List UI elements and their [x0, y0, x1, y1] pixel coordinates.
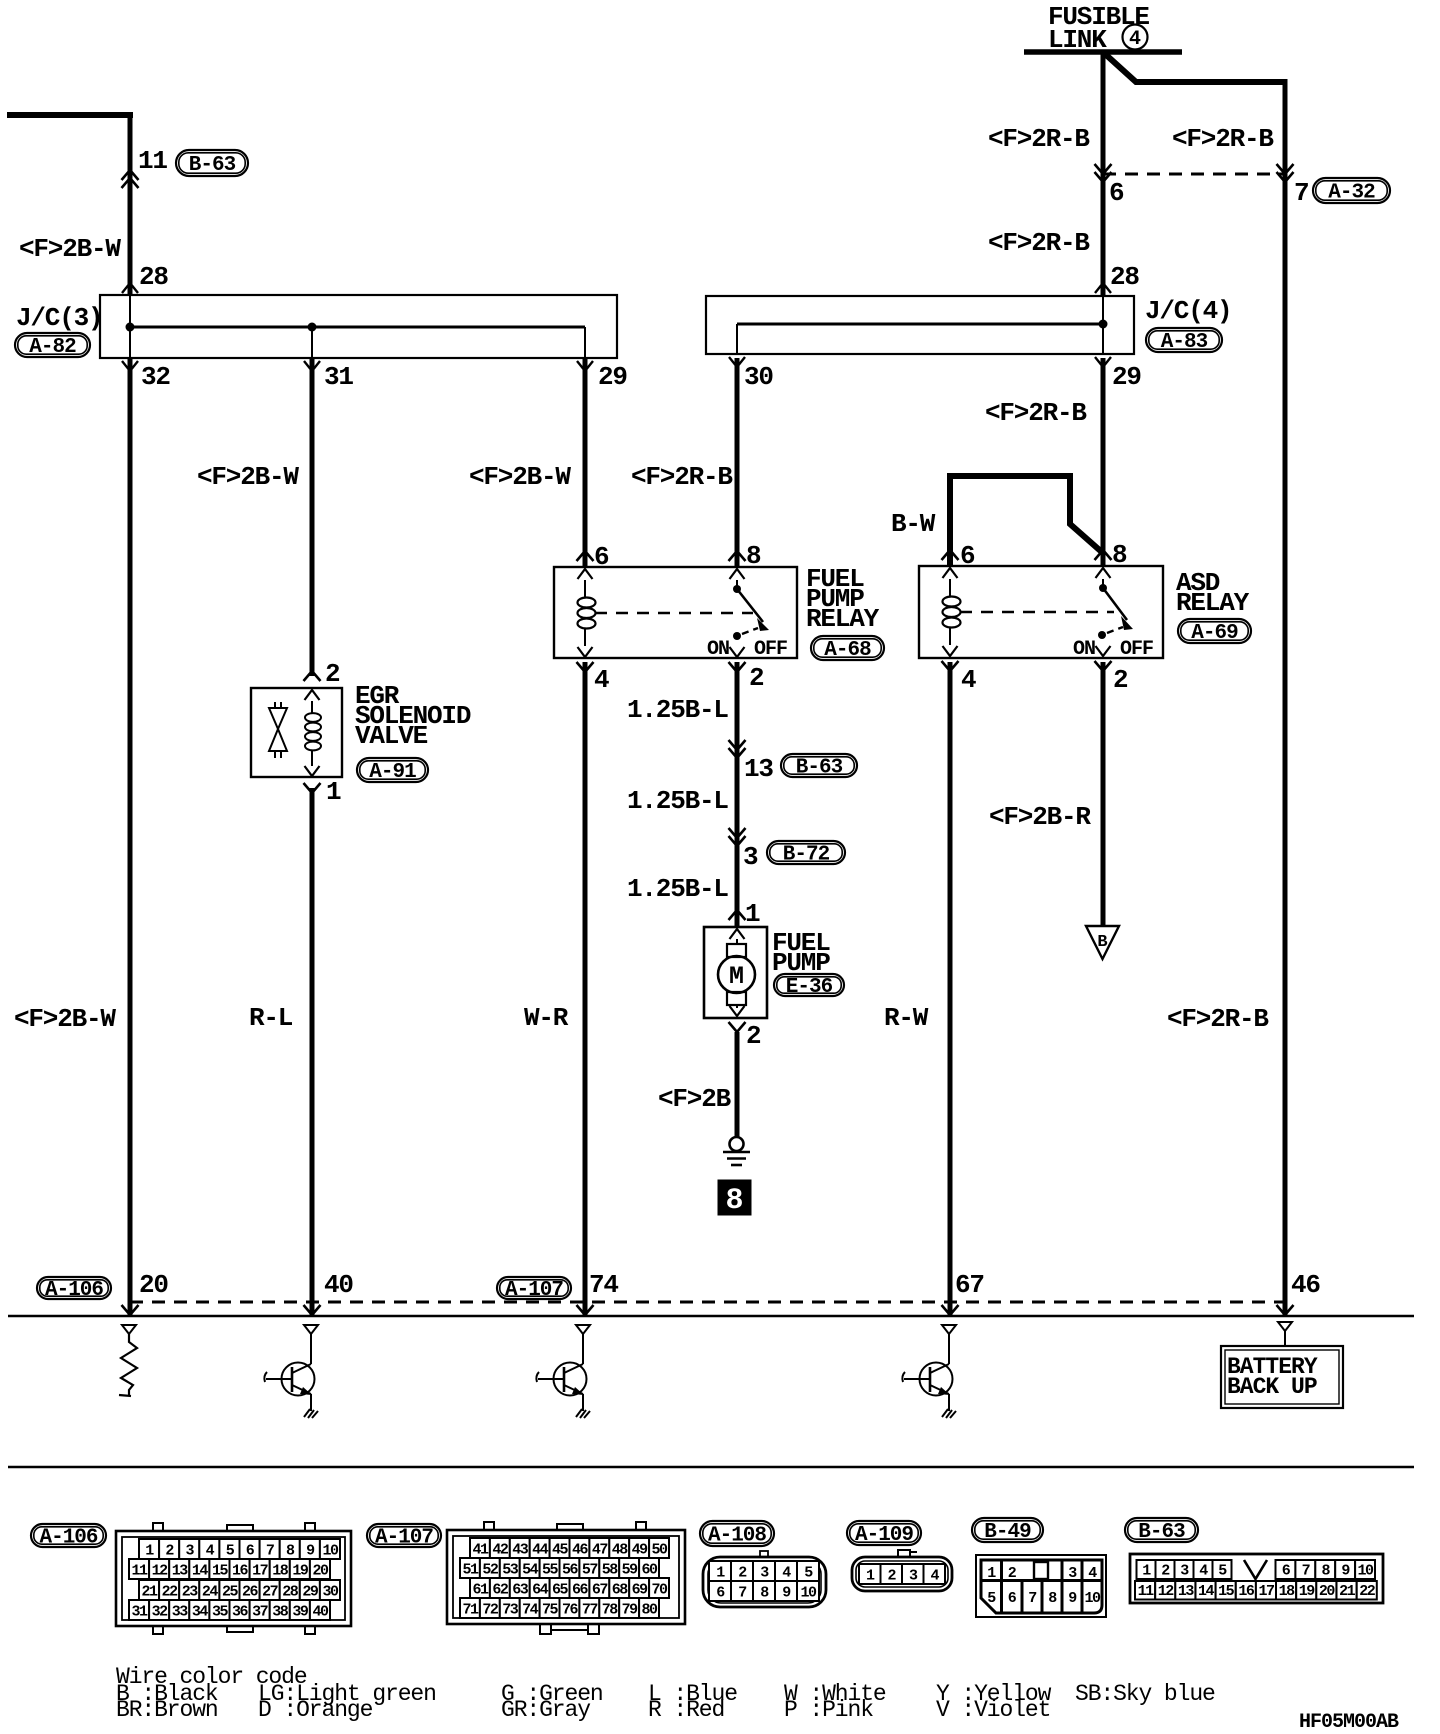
- svg-text:B: B: [1097, 933, 1107, 952]
- inline connector pin 11 (B-63) double chevron: [122, 170, 139, 180]
- circled 4: [1123, 25, 1148, 50]
- ground symbol (fuel pump): [730, 1137, 744, 1151]
- ASD pin 8 chevrons and number: [1095, 550, 1112, 560]
- connector pill B-63 (top): [176, 150, 248, 176]
- inline connector pin 7 double chevron (A-32): [1277, 164, 1294, 174]
- ASD pin 4 chevrons and number: [943, 646, 958, 656]
- svg-text:53: 53: [502, 1562, 519, 1579]
- svg-text:30: 30: [744, 362, 773, 392]
- svg-text:29: 29: [302, 1584, 319, 1601]
- svg-text:<F>2R-B: <F>2R-B: [988, 124, 1090, 154]
- svg-text:E-36: E-36: [786, 976, 833, 999]
- ASD pin 2 chevrons and number: [1096, 646, 1111, 656]
- svg-text:20: 20: [1319, 1583, 1336, 1600]
- chevron into EGR pin 2 and number: [304, 671, 321, 681]
- svg-text:B-63: B-63: [796, 757, 843, 780]
- svg-text:1.25B-L: 1.25B-L: [627, 874, 728, 904]
- svg-text:56: 56: [562, 1562, 579, 1579]
- svg-text:28: 28: [1110, 262, 1139, 292]
- ECU pin 74 chevron and number: [577, 1305, 594, 1315]
- fuel pump motor symbol: [736, 939, 738, 944]
- svg-text:46: 46: [1291, 1270, 1320, 1300]
- svg-text:A-69: A-69: [1191, 622, 1238, 645]
- connector pill E-36: [774, 974, 844, 996]
- svg-text:A-109: A-109: [855, 1524, 913, 1547]
- inline connector pin 3 (B-72) double chevron: [729, 828, 746, 838]
- wire: column 3 from J/C(3)-29 to fuel pump relay pin 6: [583, 358, 588, 567]
- svg-text:43: 43: [512, 1542, 529, 1559]
- inline connector pin 6 double chevron (A-32): [1095, 164, 1112, 174]
- svg-text:7: 7: [1294, 178, 1308, 208]
- svg-text:B-63: B-63: [189, 154, 236, 177]
- connector pill A-106 (ECU): [37, 1277, 111, 1299]
- wire: fusible link down column 6: [1101, 52, 1106, 296]
- connector pill A-107 (pinout): [367, 1524, 441, 1547]
- svg-text:80: 80: [642, 1602, 659, 1619]
- svg-text:<F>2B: <F>2B: [658, 1084, 732, 1114]
- svg-text:60: 60: [642, 1562, 659, 1579]
- svg-text:R-L: R-L: [249, 1003, 293, 1033]
- svg-text:R-W: R-W: [884, 1003, 929, 1033]
- svg-text:VALVE: VALVE: [355, 721, 428, 751]
- svg-text:1: 1: [745, 899, 760, 929]
- wire: fuel pump ground wire: [735, 1032, 740, 1138]
- chevron out of J/C(3) pin 29: [577, 361, 593, 371]
- svg-text:J/C(3): J/C(3): [16, 303, 102, 333]
- svg-text:BR:Brown: BR:Brown: [116, 1697, 218, 1723]
- EGR valve bowtie symbol: [274, 702, 276, 708]
- svg-text:68: 68: [612, 1582, 629, 1599]
- svg-text:74: 74: [522, 1602, 539, 1619]
- svg-text:16: 16: [1238, 1583, 1255, 1600]
- svg-text:A-82: A-82: [29, 336, 76, 359]
- svg-text:8: 8: [746, 541, 761, 571]
- svg-text:17: 17: [1258, 1583, 1274, 1600]
- connector B-63 pinout: [1130, 1554, 1383, 1603]
- svg-text:38: 38: [272, 1604, 289, 1621]
- svg-text:36: 36: [232, 1604, 249, 1621]
- svg-text:35: 35: [212, 1604, 229, 1621]
- chevron into fuel pump pin 1 and number: [729, 910, 746, 920]
- svg-text:51: 51: [462, 1562, 479, 1579]
- svg-text:50: 50: [652, 1542, 669, 1559]
- connector pill A-109: [847, 1521, 921, 1545]
- svg-text:W-R: W-R: [524, 1003, 569, 1033]
- svg-text:7: 7: [1028, 1590, 1036, 1607]
- chevron out of J/C(4) pin 29: [1095, 357, 1111, 367]
- connector pill B-72: [767, 841, 845, 864]
- wire: column 5 from ASD pin 4 to ECU pin 67: [948, 662, 953, 1316]
- svg-text:<F>2R-B: <F>2R-B: [631, 462, 733, 492]
- dashed tie line between A-32 pins: [1103, 173, 1285, 176]
- svg-text:62: 62: [492, 1582, 509, 1599]
- svg-text:26: 26: [242, 1584, 259, 1601]
- svg-text:A-107: A-107: [375, 1527, 433, 1550]
- connector pill A-106 (pinout): [31, 1524, 106, 1547]
- chevron into J/C(4) pin 28: [1095, 283, 1111, 293]
- J/C(3) internal bus line with junction dots: [129, 295, 131, 327]
- svg-text:48: 48: [612, 1542, 629, 1559]
- connector pill A-68: [811, 636, 884, 660]
- svg-text:4: 4: [961, 665, 976, 695]
- svg-text:4: 4: [594, 665, 609, 695]
- svg-text:19: 19: [292, 1563, 309, 1580]
- svg-text:20: 20: [139, 1270, 168, 1300]
- svg-text:D :Orange: D :Orange: [258, 1697, 373, 1723]
- svg-text:22: 22: [162, 1584, 179, 1601]
- inline connector pin 13 (B-63) double chevron: [729, 740, 746, 750]
- svg-text:37: 37: [252, 1604, 268, 1621]
- ECU pin 67 chevron and number: [942, 1305, 959, 1315]
- svg-text:13: 13: [172, 1563, 189, 1580]
- fuel pump E-36 box: [704, 927, 767, 1018]
- svg-text:A-91: A-91: [369, 761, 416, 784]
- relay pin 4 chevrons and number: [578, 647, 593, 657]
- svg-text:7: 7: [738, 1585, 746, 1602]
- svg-text:A-106: A-106: [45, 1279, 103, 1302]
- svg-text:M: M: [729, 962, 744, 991]
- svg-text:<F>2B-W: <F>2B-W: [19, 234, 121, 264]
- svg-text:67: 67: [592, 1582, 608, 1599]
- svg-text:32: 32: [152, 1604, 169, 1621]
- relay switch (fuel pump relay): [736, 580, 738, 589]
- svg-text:24: 24: [202, 1584, 219, 1601]
- chevron out of J/C(3) pin 31: [304, 361, 320, 371]
- svg-text:18: 18: [1279, 1583, 1296, 1600]
- svg-text:6: 6: [960, 541, 975, 571]
- svg-text:13: 13: [744, 754, 773, 784]
- svg-text:30: 30: [322, 1584, 339, 1601]
- ECU pin 40 chevron and number: [304, 1305, 321, 1315]
- wire: column 2 from J/C(3)-31 to EGR valve: [310, 358, 315, 676]
- svg-text:63: 63: [512, 1582, 529, 1599]
- ASD relay A-69 box: [919, 566, 1163, 658]
- connector pill B-63 (mid): [781, 754, 857, 777]
- svg-text:B-49: B-49: [984, 1521, 1031, 1544]
- body ground triangle B: [1086, 926, 1119, 959]
- connector pill A-82: [15, 333, 90, 357]
- connector pill A-91: [357, 758, 428, 782]
- connector pill B-49: [972, 1518, 1043, 1542]
- svg-text:12: 12: [1158, 1583, 1175, 1600]
- BATTERY BACK UP box: [1221, 1346, 1343, 1408]
- svg-text:2: 2: [749, 663, 764, 693]
- EGR solenoid coil: [311, 701, 313, 713]
- chevron out of fuel pump pin 2 and number: [730, 1006, 745, 1016]
- relay coil (fuel pump relay): [584, 580, 586, 598]
- svg-text:B-72: B-72: [783, 844, 830, 867]
- svg-text:31: 31: [324, 362, 353, 392]
- svg-text:19: 19: [1299, 1583, 1316, 1600]
- svg-text:10: 10: [1358, 1563, 1375, 1580]
- relay pin 6 chevrons and number: [577, 551, 594, 561]
- svg-text:67: 67: [955, 1270, 984, 1300]
- svg-text:61: 61: [472, 1582, 489, 1599]
- B-63 keying notch: [1244, 1560, 1267, 1579]
- svg-text:14: 14: [192, 1563, 209, 1580]
- svg-text:A-106: A-106: [39, 1527, 97, 1550]
- ECU driver transistor (pin 67): [942, 1325, 956, 1334]
- svg-text:11: 11: [138, 146, 167, 176]
- svg-text:73: 73: [502, 1602, 519, 1619]
- svg-text:SB:Sky blue: SB:Sky blue: [1075, 1681, 1215, 1707]
- svg-text:66: 66: [572, 1582, 589, 1599]
- svg-text:V :Violet: V :Violet: [936, 1697, 1050, 1723]
- svg-text:<F>2R-B: <F>2R-B: [985, 398, 1087, 428]
- resistor inside ECU (pin 20): [119, 1334, 137, 1396]
- svg-text:P :Pink: P :Pink: [784, 1697, 873, 1723]
- fuel pump relay A-68 box: [554, 567, 797, 658]
- svg-text:72: 72: [482, 1602, 499, 1619]
- wire: column 3 from relay pin 4 to ECU pin 74: [583, 662, 588, 1316]
- svg-text:28: 28: [139, 262, 168, 292]
- svg-text:15: 15: [212, 1563, 229, 1580]
- svg-text:52: 52: [482, 1562, 499, 1579]
- svg-text:58: 58: [602, 1562, 619, 1579]
- ground reference box 8: [718, 1180, 751, 1215]
- svg-text:11: 11: [132, 1563, 149, 1580]
- wire: fuel pump feed from relay pin 2: [735, 662, 740, 927]
- junction connector J/C(3) box: [100, 295, 617, 358]
- wire: B-W branch from ASD pin 6 up and over to pin 8: [950, 476, 1104, 567]
- ECU pin 46 chevron and number: [1277, 1305, 1294, 1315]
- svg-text:33: 33: [172, 1604, 189, 1621]
- ECU boundary line top: [8, 1315, 1414, 1318]
- svg-text:<F>2R-B: <F>2R-B: [988, 228, 1090, 258]
- svg-text:2: 2: [1113, 665, 1128, 695]
- svg-text:<F>2B-W: <F>2B-W: [14, 1004, 116, 1034]
- svg-text:44: 44: [532, 1542, 549, 1559]
- svg-text:76: 76: [562, 1602, 579, 1619]
- svg-text:46: 46: [572, 1542, 589, 1559]
- svg-text:7: 7: [266, 1543, 274, 1560]
- svg-text:OFF: OFF: [1120, 638, 1153, 661]
- relay pin 2 chevrons and number: [730, 647, 745, 657]
- svg-text:HF05M00AB: HF05M00AB: [1299, 1711, 1399, 1734]
- svg-text:8: 8: [725, 1184, 743, 1218]
- svg-text:<F>2R-B: <F>2R-B: [1167, 1004, 1269, 1034]
- svg-text:1.25B-L: 1.25B-L: [627, 695, 728, 725]
- connector pill A-108: [700, 1521, 774, 1546]
- svg-text:7: 7: [1302, 1563, 1310, 1580]
- svg-text:14: 14: [1198, 1583, 1215, 1600]
- svg-text:2: 2: [325, 659, 340, 689]
- svg-text:77: 77: [582, 1602, 598, 1619]
- svg-text:<F>2B-R: <F>2B-R: [989, 802, 1091, 832]
- chevron out of EGR pin 1 and number: [305, 766, 320, 776]
- svg-text:20: 20: [312, 1563, 329, 1580]
- ECU driver transistor (pin 74): [576, 1325, 590, 1334]
- svg-text:22: 22: [1359, 1583, 1376, 1600]
- connector pill A-107 (ECU): [497, 1277, 571, 1299]
- ASD pin 6 chevrons and number: [942, 550, 959, 560]
- svg-text:<F>2R-B: <F>2R-B: [1172, 124, 1274, 154]
- svg-text:B-W: B-W: [891, 509, 936, 539]
- EGR solenoid valve A-91 box: [251, 688, 342, 777]
- ECU input triangle pin 20: [122, 1325, 136, 1334]
- chevron out of J/C(3) pin 32: [122, 361, 138, 371]
- svg-text:A-68: A-68: [824, 639, 871, 662]
- svg-text:J/C(4): J/C(4): [1145, 296, 1231, 326]
- ECU driver transistor (pin 40): [304, 1325, 318, 1334]
- connector pill A-83: [1146, 328, 1222, 352]
- svg-text:57: 57: [582, 1562, 598, 1579]
- svg-text:17: 17: [252, 1563, 268, 1580]
- ECU connector A-106 pinout: [116, 1531, 351, 1626]
- svg-text:47: 47: [592, 1542, 608, 1559]
- svg-text:79: 79: [622, 1602, 639, 1619]
- chevron out of J/C(4) pin 30: [729, 357, 745, 367]
- svg-text:<F>2B-W: <F>2B-W: [469, 462, 571, 492]
- ECU connector A-107 pinout: [447, 1530, 685, 1624]
- svg-text:A-83: A-83: [1161, 331, 1208, 354]
- wire: column 7 feeder down: [1283, 79, 1288, 1316]
- svg-text:11: 11: [1138, 1583, 1155, 1600]
- svg-text:49: 49: [632, 1542, 649, 1559]
- svg-text:29: 29: [598, 362, 627, 392]
- connector A-109 pinout: [898, 1550, 917, 1557]
- svg-text:15: 15: [1218, 1583, 1235, 1600]
- svg-text:21: 21: [1339, 1583, 1356, 1600]
- svg-text:B-63: B-63: [1138, 1521, 1185, 1544]
- connector pill A-32: [1313, 178, 1390, 203]
- svg-text:8: 8: [1112, 540, 1127, 570]
- wire: column-1 feeder down to J/C(3) pin 28: [128, 112, 133, 296]
- svg-text:ON: ON: [707, 638, 729, 661]
- svg-text:6: 6: [1109, 178, 1124, 208]
- svg-text:59: 59: [622, 1562, 639, 1579]
- svg-text:42: 42: [492, 1542, 509, 1559]
- svg-text:10: 10: [1084, 1590, 1101, 1607]
- svg-text:75: 75: [542, 1602, 559, 1619]
- connector A-108 pinout: [760, 1551, 768, 1557]
- wire: branch diagonal to column 7: [1104, 53, 1285, 82]
- svg-text:41: 41: [472, 1542, 489, 1559]
- svg-text:R :Red: R :Red: [648, 1697, 724, 1723]
- svg-text:32: 32: [141, 362, 170, 392]
- svg-text:A-108: A-108: [708, 1525, 766, 1548]
- svg-text:4: 4: [1129, 28, 1141, 51]
- svg-text:A-107: A-107: [505, 1279, 563, 1302]
- ECU pin 20 chevron and number: [122, 1305, 139, 1315]
- wire: ignition feed horizontal top-left: [7, 112, 133, 118]
- svg-text:54: 54: [522, 1562, 539, 1579]
- svg-text:ON: ON: [1073, 638, 1095, 661]
- J/C(4) internal bus line with junction dot: [1102, 296, 1104, 324]
- svg-text:65: 65: [552, 1582, 569, 1599]
- svg-text:55: 55: [542, 1562, 559, 1579]
- svg-text:39: 39: [292, 1604, 309, 1621]
- svg-text:RELAY: RELAY: [1176, 588, 1250, 618]
- svg-text:10: 10: [322, 1543, 339, 1560]
- svg-text:1.25B-L: 1.25B-L: [627, 786, 728, 816]
- svg-text:21: 21: [142, 1584, 159, 1601]
- svg-text:18: 18: [272, 1563, 289, 1580]
- svg-text:40: 40: [312, 1604, 329, 1621]
- ECU battery backup input triangle (pin 46): [1278, 1322, 1292, 1331]
- svg-text:45: 45: [552, 1542, 569, 1559]
- wire: column 4 from J/C(4)-30 to fuel pump relay pin 8: [735, 358, 740, 567]
- ASD relay switch: [1102, 579, 1104, 588]
- fusible link bus bar: [1024, 49, 1182, 55]
- svg-text:27: 27: [262, 1584, 278, 1601]
- junction connector J/C(4) box: [706, 296, 1134, 354]
- svg-text:6: 6: [594, 542, 609, 572]
- svg-text:23: 23: [182, 1584, 199, 1601]
- wire: ASD pin 2 to body ground: [1101, 662, 1106, 926]
- relay pin 8 chevrons and number: [729, 551, 746, 561]
- wire: column 2 from EGR pin 1 to ECU pin 40: [310, 788, 315, 1316]
- svg-text:A-32: A-32: [1328, 182, 1375, 205]
- ECU boundary line bottom: [8, 1466, 1414, 1468]
- svg-text:3: 3: [743, 842, 758, 872]
- svg-text:2: 2: [746, 1021, 761, 1051]
- ASD relay coil: [949, 579, 951, 597]
- svg-text:12: 12: [152, 1563, 169, 1580]
- chevron into J/C(3) pin 28: [122, 283, 138, 293]
- svg-text:16: 16: [232, 1563, 249, 1580]
- dashed ECU connector tie line: [130, 1301, 1285, 1304]
- svg-text:OFF: OFF: [754, 638, 787, 661]
- svg-text:31: 31: [132, 1604, 149, 1621]
- svg-text:RELAY: RELAY: [806, 604, 880, 634]
- svg-text:GR:Gray: GR:Gray: [501, 1697, 591, 1723]
- ASD actuation dashed line: [960, 611, 1114, 614]
- svg-text:70: 70: [652, 1582, 669, 1599]
- wire: column 6 from J/C(4)-29 to ASD relay pin 8: [1101, 358, 1106, 566]
- svg-text:74: 74: [589, 1270, 618, 1300]
- svg-text:10: 10: [800, 1585, 817, 1602]
- svg-text:<F>2B-W: <F>2B-W: [197, 462, 299, 492]
- svg-text:78: 78: [602, 1602, 619, 1619]
- svg-text:34: 34: [192, 1604, 209, 1621]
- svg-text:BACK UP: BACK UP: [1227, 1374, 1317, 1400]
- svg-text:71: 71: [462, 1602, 479, 1619]
- svg-text:1: 1: [326, 777, 341, 807]
- svg-text:69: 69: [632, 1582, 649, 1599]
- wire: column 1 down from J/C(3)-32 to ECU pin 20: [128, 358, 133, 1316]
- relay actuation dashed line: [595, 612, 753, 615]
- svg-text:25: 25: [222, 1584, 239, 1601]
- connector pill B-63 (pinout): [1125, 1518, 1198, 1542]
- svg-text:28: 28: [282, 1584, 299, 1601]
- svg-text:13: 13: [1178, 1583, 1195, 1600]
- connector B-49 pinout: [976, 1555, 1106, 1617]
- connector pill A-69: [1178, 619, 1251, 643]
- svg-text:40: 40: [324, 1270, 353, 1300]
- svg-text:64: 64: [532, 1582, 549, 1599]
- svg-text:29: 29: [1112, 362, 1141, 392]
